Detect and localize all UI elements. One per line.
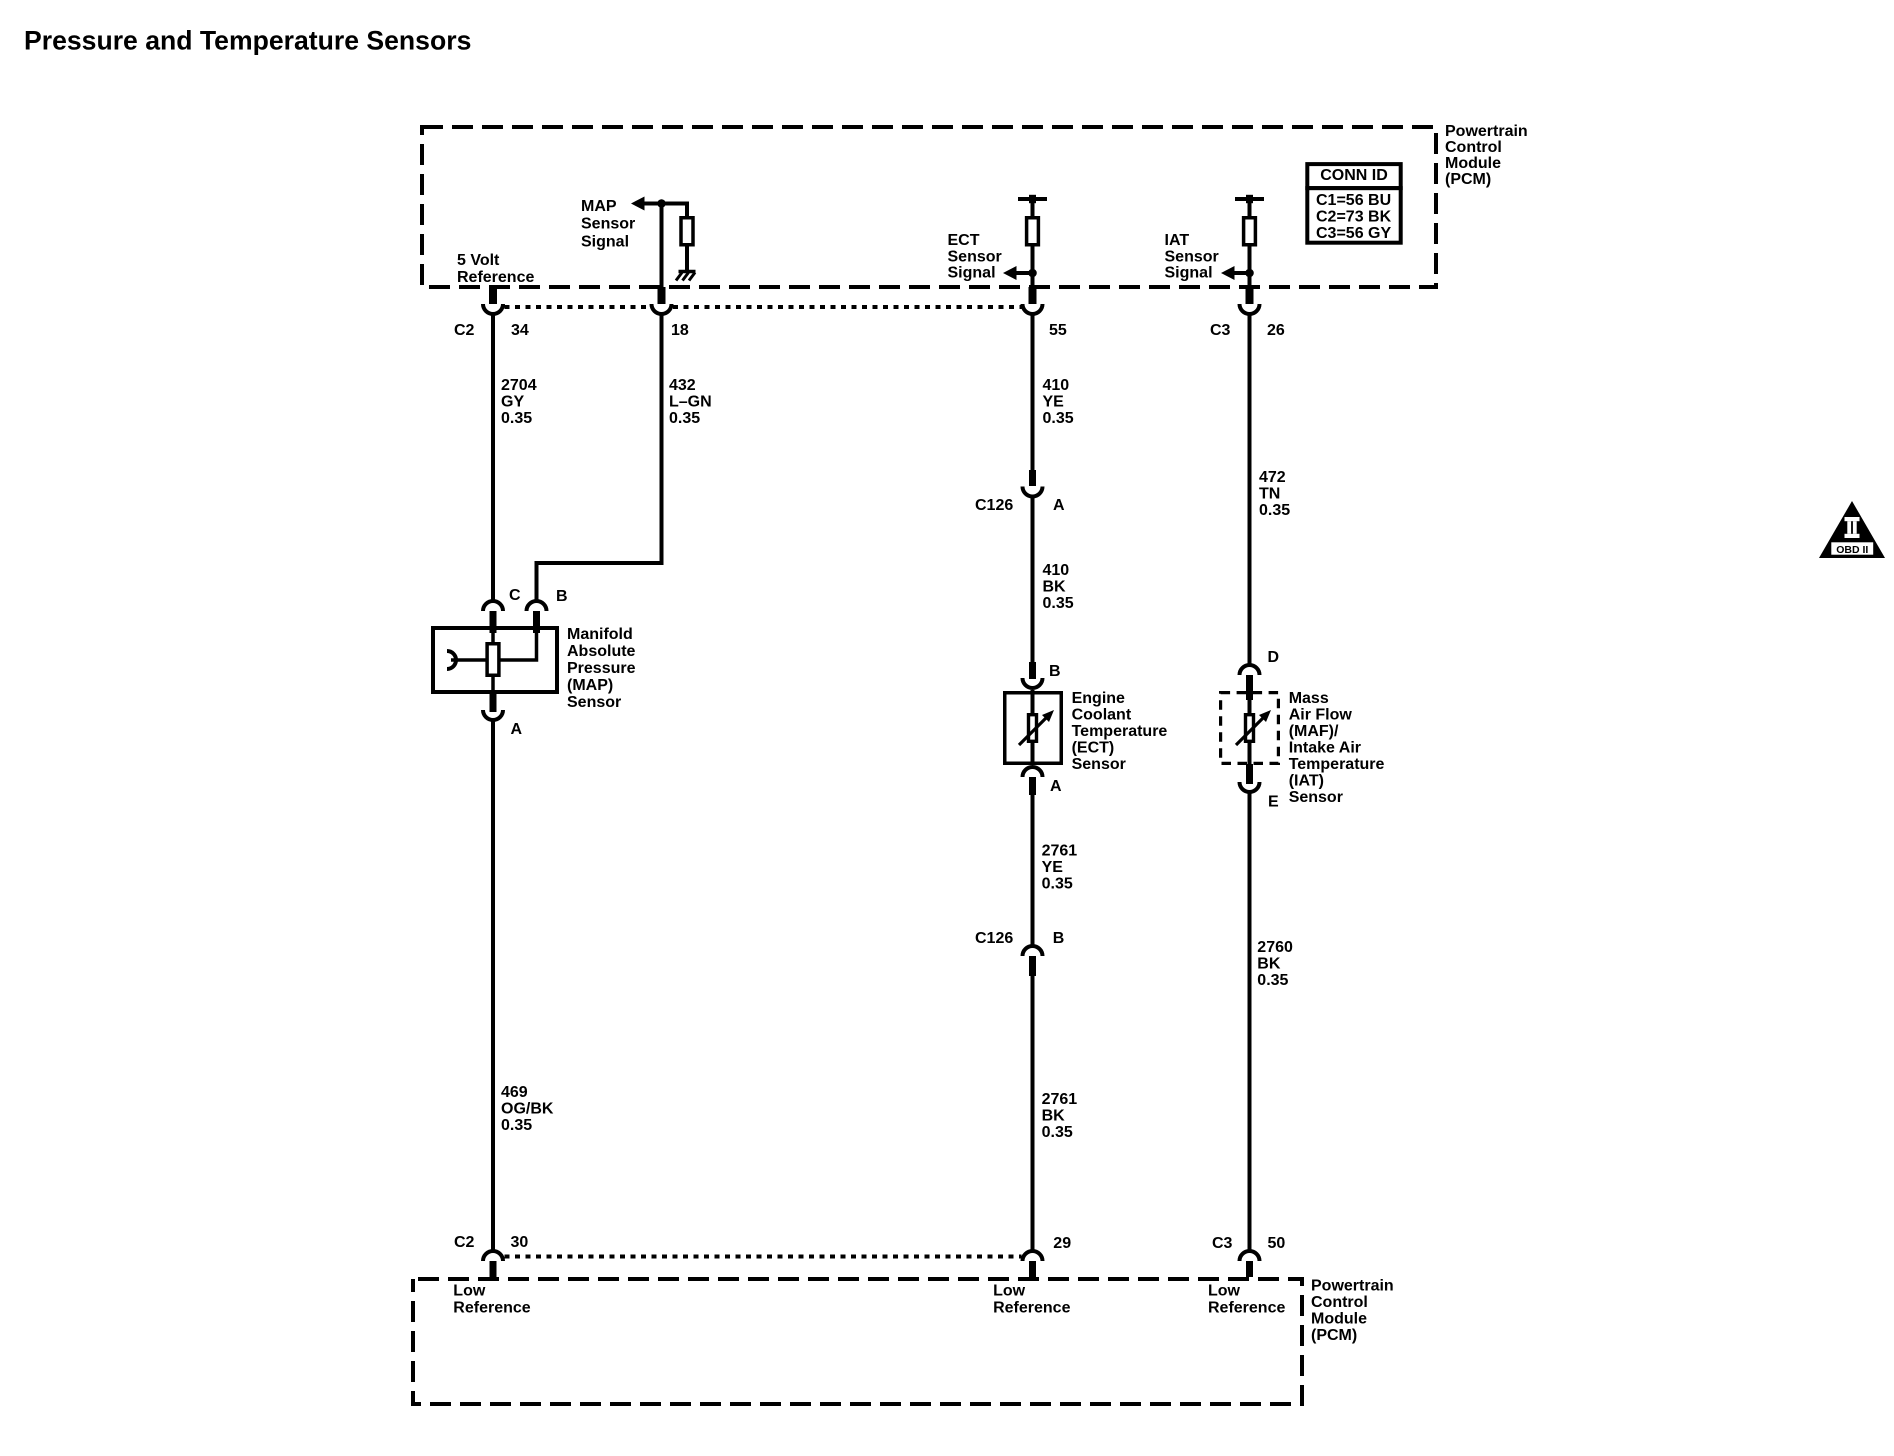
svg-text:29: 29	[1053, 1235, 1071, 1252]
CONN ID table	[1307, 164, 1400, 243]
wire port to element	[451, 658, 488, 662]
svg-text:Reference: Reference	[453, 1299, 530, 1316]
resistor (MAP pull-up)	[681, 218, 693, 245]
5 Volt Reference label	[457, 252, 534, 286]
svg-text:Sensor: Sensor	[1165, 248, 1219, 265]
5V T-bar node (IAT)	[1235, 195, 1264, 203]
wire 2704 GY (pin 34 to MAP C)	[491, 314, 495, 600]
wire element to A pin (internal)	[491, 675, 495, 694]
wire 472 TN (pin 26 to MAF D)	[1248, 314, 1252, 664]
svg-text:Sensor: Sensor	[567, 694, 621, 711]
svg-text:YE: YE	[1042, 859, 1064, 876]
MAP pin C blade	[490, 611, 497, 633]
PCM (Powertrain Control Module) bottom dashed box	[413, 1279, 1302, 1404]
ground (chassis)	[676, 272, 696, 281]
svg-text:(PCM): (PCM)	[1311, 1327, 1357, 1344]
svg-text:C3: C3	[1210, 322, 1231, 339]
svg-text:Reference: Reference	[457, 269, 534, 286]
PCM pin 55 (blade + connector cup)	[1023, 287, 1043, 314]
wire label 432 L-GN 0.35	[669, 377, 712, 427]
Low Reference label 2	[993, 1283, 1070, 1317]
svg-text:0.35: 0.35	[1257, 972, 1288, 989]
wire label 2704 GY 0.35	[501, 377, 537, 427]
Low Reference label 3	[1208, 1283, 1285, 1317]
svg-text:C2: C2	[454, 1234, 475, 1251]
svg-text:Pressure and Temperature Senso: Pressure and Temperature Sensors	[24, 26, 471, 56]
svg-text:472: 472	[1259, 469, 1286, 486]
svg-text:Signal: Signal	[1165, 265, 1213, 282]
ECT sensor box	[1005, 693, 1062, 764]
PCM pin 18 (blade + connector cup)	[652, 287, 672, 314]
svg-text:C2=73 BK: C2=73 BK	[1316, 209, 1392, 226]
IAT thermistor element	[1246, 715, 1254, 742]
wire arrow tail	[1015, 271, 1033, 275]
ECT signal arrow	[1003, 266, 1017, 280]
IAT Sensor Signal label	[1165, 232, 1219, 282]
IAT internal wires	[1248, 698, 1252, 766]
wire 410 YE (pin 55 to C126 A)	[1031, 314, 1035, 471]
svg-text:Temperature: Temperature	[1289, 756, 1385, 773]
svg-text:A: A	[1053, 497, 1065, 514]
svg-text:C126: C126	[975, 497, 1013, 514]
junction dot (MAP signal node)	[657, 199, 666, 208]
svg-text:Sensor: Sensor	[948, 248, 1002, 265]
wire 469 OG/BK (MAP A to pin C2-30)	[491, 720, 495, 1250]
5V T-bar node (ECT)	[1018, 195, 1047, 203]
svg-text:(PCM): (PCM)	[1445, 171, 1491, 188]
svg-text:Engine: Engine	[1072, 690, 1125, 707]
svg-text:BK: BK	[1043, 579, 1067, 596]
wire 410 BK (C126 A to ECT B)	[1031, 496, 1035, 663]
MAP pressure port arc	[447, 651, 456, 669]
svg-text:Module: Module	[1311, 1311, 1367, 1328]
svg-text:2760: 2760	[1257, 939, 1293, 956]
MAP sensing element (resistor)	[487, 644, 499, 676]
wire C blade to element	[491, 632, 495, 645]
ECT pin A blade	[1029, 777, 1036, 795]
MAF pin E connector cup	[1240, 782, 1260, 792]
MAP pin B blade	[533, 611, 540, 633]
wire arrow tail	[1233, 271, 1250, 275]
svg-text:34: 34	[511, 322, 529, 339]
resistor (ECT pull-up)	[1027, 218, 1039, 245]
svg-text:2761: 2761	[1042, 843, 1078, 860]
Low Reference label 1	[453, 1283, 530, 1317]
svg-text:C2: C2	[454, 322, 475, 339]
svg-text:E: E	[1268, 794, 1279, 811]
ECT thermistor element	[1029, 715, 1037, 742]
svg-text:MAP: MAP	[581, 198, 617, 215]
svg-text:D: D	[1268, 649, 1280, 666]
svg-text:Absolute: Absolute	[567, 643, 636, 660]
svg-text:Powertrain: Powertrain	[1445, 123, 1528, 140]
wire label 2760 BK 0.35	[1257, 939, 1293, 989]
svg-text:26: 26	[1267, 322, 1285, 339]
wire junction to resistor R-MAP	[662, 204, 688, 218]
svg-text:Reference: Reference	[1208, 1299, 1285, 1316]
svg-text:Module: Module	[1445, 155, 1501, 172]
svg-text:Low: Low	[453, 1283, 486, 1300]
svg-text:50: 50	[1268, 1235, 1286, 1252]
svg-text:Sensor: Sensor	[1072, 756, 1126, 773]
junction dot (IAT signal node)	[1245, 269, 1254, 278]
svg-text:Pressure: Pressure	[567, 660, 636, 677]
connector C126 pin A (blade + cup)	[1023, 470, 1043, 497]
PCM pin C3-26 (blade + connector cup)	[1240, 287, 1260, 314]
svg-text:0.35: 0.35	[501, 410, 532, 427]
MAP pin B connector cup	[527, 601, 547, 611]
svg-text:(IAT): (IAT)	[1289, 773, 1324, 790]
svg-text:Signal: Signal	[581, 233, 629, 250]
svg-text:0.35: 0.35	[1259, 502, 1290, 519]
wire MAP signal node down to pin 18	[660, 204, 664, 289]
wire label 2761 YE 0.35	[1042, 843, 1078, 893]
svg-text:Intake Air: Intake Air	[1289, 740, 1361, 757]
svg-text:0.35: 0.35	[1042, 876, 1073, 893]
PCM label (bottom right)	[1311, 1278, 1394, 1345]
wire 2761 YE (ECT A to C126 B)	[1031, 793, 1035, 946]
svg-text:C1=56 BU: C1=56 BU	[1316, 192, 1391, 209]
svg-text:432: 432	[669, 377, 696, 394]
svg-text:(MAF)/: (MAF)/	[1289, 723, 1339, 740]
svg-text:410: 410	[1043, 562, 1070, 579]
svg-text:C3=56 GY: C3=56 GY	[1316, 225, 1391, 242]
connector dotted line (C2 harness, top)	[505, 305, 651, 309]
svg-text:L–GN: L–GN	[669, 394, 712, 411]
MAF pin E blade	[1246, 764, 1253, 784]
wire label 410 BK 0.35	[1043, 562, 1074, 612]
MAP signal arrow	[631, 197, 645, 211]
PCM pin C3-50 (cup + blade)	[1240, 1251, 1260, 1277]
svg-text:IAT: IAT	[1165, 232, 1190, 249]
svg-text:410: 410	[1043, 377, 1070, 394]
ECT sensor name label	[1072, 690, 1168, 773]
svg-text:Control: Control	[1311, 1294, 1368, 1311]
IAT signal arrow	[1221, 266, 1235, 280]
svg-text:30: 30	[511, 1234, 529, 1251]
wire 2760 BK (MAF E to pin C3-50)	[1248, 792, 1252, 1250]
ECT pin A connector cup	[1023, 767, 1043, 777]
svg-text:TN: TN	[1259, 486, 1280, 503]
svg-text:YE: YE	[1043, 394, 1065, 411]
ECT pin B blade	[1029, 662, 1036, 679]
wire resistor to ground	[685, 245, 689, 272]
svg-text:B: B	[556, 588, 568, 605]
PCM pin C2-34 (blade + connector cup)	[483, 287, 503, 314]
svg-text:2761: 2761	[1042, 1091, 1078, 1108]
MAP pin A blade	[490, 694, 497, 712]
svg-text:Manifold: Manifold	[567, 626, 633, 643]
wire label 469 OG/BK 0.35	[501, 1084, 554, 1134]
MAP Sensor Signal label	[581, 198, 635, 250]
IAT thermistor arrow	[1236, 710, 1271, 745]
svg-text:(ECT): (ECT)	[1072, 740, 1115, 757]
svg-text:Coolant: Coolant	[1072, 707, 1132, 724]
wire T-bar to resistor	[1031, 199, 1035, 218]
ECT pin B connector cup	[1023, 678, 1043, 688]
svg-text:0.35: 0.35	[669, 410, 700, 427]
svg-text:Air Flow: Air Flow	[1289, 707, 1353, 724]
MAP sensor name label	[567, 626, 636, 711]
svg-text:0.35: 0.35	[1043, 595, 1074, 612]
svg-text:(MAP): (MAP)	[567, 677, 613, 694]
svg-text:Mass: Mass	[1289, 690, 1329, 707]
PCM (Powertrain Control Module) top dashed box	[422, 127, 1436, 287]
ECT Sensor Signal label	[948, 232, 1002, 282]
PCM pin 29 (cup + blade)	[1023, 1251, 1043, 1277]
svg-text:OBD II: OBD II	[1836, 544, 1868, 556]
svg-text:2704: 2704	[501, 377, 537, 394]
svg-text:0.35: 0.35	[501, 1117, 532, 1134]
connector C126 pin B (cup + blade)	[1023, 946, 1043, 976]
wire label 472 TN 0.35	[1259, 469, 1290, 519]
svg-text:Powertrain: Powertrain	[1311, 1278, 1394, 1295]
svg-text:Control: Control	[1445, 139, 1502, 156]
wire T-bar to resistor	[1248, 199, 1252, 218]
ECT thermistor arrow	[1019, 710, 1054, 745]
wire resistor down to pin 26	[1248, 245, 1252, 288]
svg-text:CONN ID: CONN ID	[1320, 167, 1388, 184]
svg-text:C: C	[509, 587, 521, 604]
svg-text:55: 55	[1049, 322, 1067, 339]
svg-text:5 Volt: 5 Volt	[457, 252, 500, 269]
ECT internal wires	[1031, 690, 1035, 765]
MAP sensor box	[433, 628, 557, 692]
MAF pin D connector cup	[1240, 665, 1260, 675]
OBD II triangle marker	[1819, 501, 1885, 558]
wire resistor down to pin 55	[1031, 245, 1035, 288]
wire label 410 YE 0.35	[1043, 377, 1074, 427]
svg-text:A: A	[511, 721, 523, 738]
resistor (IAT pull-up)	[1244, 218, 1256, 245]
svg-text:GY: GY	[501, 394, 524, 411]
svg-text:B: B	[1053, 930, 1065, 947]
svg-text:OG/BK: OG/BK	[501, 1101, 554, 1118]
svg-text:469: 469	[501, 1084, 528, 1101]
connector dotted line (bottom)	[505, 1255, 1022, 1259]
svg-text:0.35: 0.35	[1043, 410, 1074, 427]
svg-text:C3: C3	[1212, 1235, 1233, 1252]
PCM pin C2-30 (cup + blade)	[483, 1251, 503, 1277]
svg-text:18: 18	[671, 322, 689, 339]
svg-text:Low: Low	[1208, 1283, 1241, 1300]
svg-text:BK: BK	[1257, 956, 1281, 973]
wire arrow tail to junction	[643, 202, 662, 206]
MAF pin D blade	[1246, 675, 1253, 700]
svg-text:Low: Low	[993, 1283, 1026, 1300]
svg-text:B: B	[1049, 663, 1061, 680]
svg-text:Sensor: Sensor	[581, 216, 635, 233]
svg-text:Reference: Reference	[993, 1299, 1070, 1316]
svg-text:0.35: 0.35	[1042, 1124, 1073, 1141]
MAP pin A connector cup	[483, 710, 503, 720]
svg-text:BK: BK	[1042, 1108, 1066, 1125]
svg-text:Temperature: Temperature	[1072, 723, 1168, 740]
MAF/IAT sensor dashed box	[1221, 693, 1279, 764]
svg-text:ECT: ECT	[948, 232, 980, 249]
svg-text:Signal: Signal	[948, 265, 996, 282]
svg-text:A: A	[1050, 778, 1062, 795]
PCM label (top right)	[1445, 123, 1528, 188]
wire 432 L-GN (pin 18 to MAP B)	[537, 314, 662, 600]
MAF/IAT sensor name label	[1289, 690, 1385, 806]
wire 2761 BK (C126 B to pin 29)	[1031, 974, 1035, 1250]
MAP pin C connector cup	[483, 601, 503, 611]
wire label 2761 BK 0.35	[1042, 1091, 1078, 1141]
svg-text:Sensor: Sensor	[1289, 789, 1343, 806]
svg-text:C126: C126	[975, 930, 1013, 947]
junction dot (ECT signal node)	[1028, 269, 1037, 278]
wire element to B pin (internal)	[499, 631, 537, 660]
